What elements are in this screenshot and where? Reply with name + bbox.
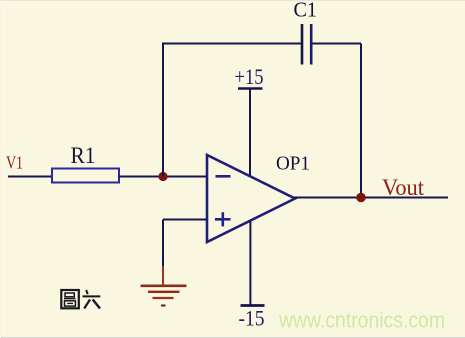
-15 supply bar [241, 304, 265, 307]
wire: op-amp bottom to -15 [249, 221, 251, 306]
edge artifacts [0, 337, 465, 338]
wire: C1 to right corner [312, 43, 362, 45]
wire: feedback top horizontal to C1 [162, 43, 302, 45]
svg-text:V1: V1 [6, 153, 23, 173]
wire: +15 to op-amp top [249, 89, 251, 177]
glyph 六 [83, 290, 101, 309]
svg-text:www.cntronics.com: www.cntronics.com [278, 308, 445, 333]
node A (inverting input junction) [158, 172, 167, 181]
wire: R1 to op-amp inverting input [119, 176, 207, 178]
svg-text:-15: -15 [239, 306, 265, 331]
op-amp U1 (OP1 triangle) [207, 155, 295, 242]
wire: input V1 to R1 [8, 176, 53, 178]
resistor R1 [52, 169, 119, 183]
svg-text:OP1: OP1 [276, 153, 310, 175]
wire: down to ground [162, 220, 164, 273]
ground [141, 266, 187, 306]
+15 supply bar [238, 87, 263, 90]
glyph 圖 [61, 290, 79, 308]
svg-text:+15: +15 [235, 64, 264, 89]
wire: non-inverting input [163, 219, 207, 221]
wire: feedback right vertical [360, 44, 362, 198]
node B (output junction) [356, 193, 366, 203]
svg-text:R1: R1 [71, 143, 96, 168]
wire: feedback left vertical [162, 44, 164, 177]
capacitor C1 [302, 24, 311, 65]
svg-text:C1: C1 [294, 0, 318, 22]
label figure caption 圖六 (drawn glyphs) [61, 290, 100, 309]
svg-text:Vout: Vout [382, 175, 425, 200]
op-amp plus sign [215, 212, 231, 226]
op-amp minus sign [216, 175, 231, 178]
wire: output [294, 197, 448, 199]
